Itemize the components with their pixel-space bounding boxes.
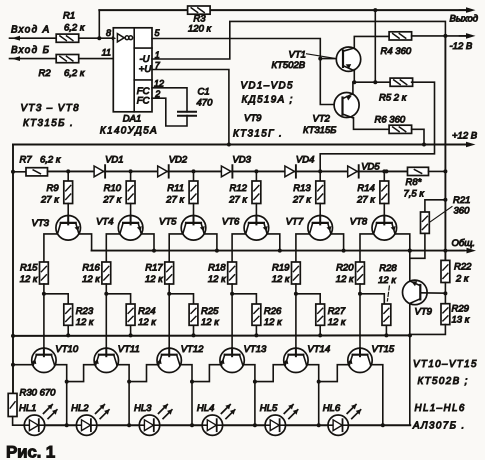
wire R18 down (231, 284, 233, 335)
wire link to R28 (360, 294, 384, 304)
transistor VT11 КТ502В (94, 348, 119, 372)
wire VT3 emitter to common rail (79, 234, 92, 251)
wire base rail to VT11 (105, 335, 107, 349)
wire pin7 to +12V rail (152, 70, 229, 145)
svg-text:R7: R7 (20, 154, 33, 165)
wire base rail to VT12 (168, 335, 170, 349)
node VT7 emitter junction (342, 249, 346, 253)
node VT13 emitter junction (190, 380, 194, 384)
label К140УД5А (100, 126, 158, 137)
node VT15 emitter junction (317, 380, 321, 384)
transistor VT3 КТ315Б (56, 216, 81, 241)
node VT10 emitter left rail (11, 363, 15, 367)
node VD rail tap R14 (382, 169, 386, 173)
svg-text:VT2: VT2 (313, 114, 331, 125)
resistor R9 27к (40, 181, 73, 205)
svg-text:DA1: DA1 (123, 114, 141, 125)
node base rail left (11, 334, 15, 338)
svg-text:2: 2 (154, 89, 160, 99)
resistor R30 670 (8, 388, 56, 417)
label HL1 (19, 403, 36, 414)
resistor R17 12к (145, 262, 174, 285)
svg-text:HL4: HL4 (197, 403, 214, 414)
wire VT15 emitter jog (319, 365, 350, 382)
node pin8 feedback junction (97, 36, 101, 40)
svg-text:VT3 – VT8: VT3 – VT8 (21, 103, 80, 114)
label КТ315Б group (23, 118, 74, 129)
wire VT12 collector down (180, 365, 192, 426)
resistor R25 12к (189, 304, 219, 328)
svg-text:27 к: 27 к (356, 194, 375, 205)
wire VT6 collector to R18 (232, 234, 246, 262)
wire link to R27 (296, 294, 320, 304)
wire R1 to DA1 pin8 (79, 37, 114, 39)
svg-text:R22: R22 (454, 261, 472, 272)
node VD rail tap R9 (66, 169, 70, 173)
wire output rail to Выход (99, 9, 466, 11)
node R22 R29 VT9 junction (443, 291, 447, 295)
label VT1 (289, 50, 335, 61)
node R24 rail junction (129, 333, 133, 337)
LED HL6 АЛ307Б (328, 404, 361, 435)
svg-text:R12: R12 (229, 183, 247, 194)
wire VT1 emitter down to node (353, 70, 355, 83)
wire R11 to VT5 base (193, 204, 195, 216)
wire R21 connect (425, 200, 446, 212)
svg-text:КТ502В: КТ502В (272, 60, 306, 71)
resistor R19 12к (272, 262, 301, 285)
wire feedback riser (98, 10, 100, 38)
wire VT8 emitter to common rail (395, 234, 410, 251)
svg-text:R30 670: R30 670 (20, 388, 57, 399)
svg-text:VT9: VT9 (244, 113, 262, 124)
wire pin12 to C1 (152, 88, 187, 112)
wire R13 to VT7 base (319, 204, 321, 216)
wire R16 down (105, 284, 107, 335)
node R25 rail junction (192, 333, 196, 337)
wire VT3 collector to R15 (44, 234, 58, 262)
transistor VT7 КТ315Б (308, 216, 333, 241)
svg-text:R8*: R8* (406, 177, 422, 188)
wire VT5 collector to R17 (169, 234, 183, 262)
svg-text:7,5 к: 7,5 к (404, 189, 425, 200)
LED HL5 АЛ307Б (265, 404, 298, 435)
svg-text:12 к: 12 к (208, 274, 226, 285)
node VT5 emitter junction (215, 249, 219, 253)
wire pin2 to C1 (152, 98, 187, 126)
label VT10 (55, 344, 78, 355)
label DA1 (123, 114, 141, 125)
wire R19 down (295, 284, 297, 335)
transistor VT12 КТ502В (157, 348, 182, 372)
svg-text:R19: R19 (272, 262, 290, 273)
svg-text:Общ.: Общ. (452, 238, 475, 249)
wire output node riser (374, 10, 376, 82)
svg-text:VD5: VD5 (361, 161, 380, 172)
svg-text:12 к: 12 к (201, 317, 219, 328)
label VT6 (222, 216, 240, 227)
transistor VT10 КТ502В (31, 348, 56, 372)
label VT9 type (244, 113, 262, 124)
svg-text:R18: R18 (208, 262, 226, 273)
svg-text:12 к: 12 к (264, 317, 282, 328)
wire VT14 collector down (307, 365, 319, 426)
wire VT13 emitter jog (192, 365, 221, 382)
resistor R11 27к (165, 181, 198, 205)
node LED junction 2 (127, 423, 131, 427)
svg-text:R20: R20 (336, 262, 354, 273)
svg-text:VT3: VT3 (32, 218, 50, 229)
node pin7 rail junction (227, 143, 231, 147)
node R8 left junction (384, 169, 388, 173)
transistor VT8 КТ315Б (372, 216, 397, 241)
resistor R15 12к (20, 262, 49, 285)
node R17 bottom (167, 292, 171, 296)
transistor VT2 КТ315Б (334, 93, 359, 118)
node R7 tap (11, 170, 15, 174)
wire diode reference rail (48, 170, 408, 172)
wire R29 to base rail (410, 325, 445, 335)
wire VT4 collector to R16 (106, 234, 120, 262)
wire LED line (24, 424, 410, 426)
svg-text:Рис. 1: Рис. 1 (6, 443, 55, 460)
terminal +12 В (452, 130, 478, 147)
diode VD2 КД519А (158, 154, 188, 177)
input terminal Вход Б (10, 45, 57, 61)
svg-text:Вход Б: Вход Б (11, 45, 50, 56)
svg-text:HL1: HL1 (19, 403, 36, 414)
node Общ R22 junction (443, 249, 447, 253)
svg-text:КД519А ;: КД519А ; (242, 95, 294, 106)
resistor R8* 7,5к (404, 167, 446, 199)
transistor VT14 КТ502В (283, 348, 308, 372)
label VT3 (32, 218, 50, 229)
node R18 bottom (230, 292, 234, 296)
wire R14 to VT8 base (383, 204, 385, 216)
node VD rail tap R10 (129, 169, 133, 173)
wire R5 to bias line (320, 82, 434, 171)
resistor R3 120к (188, 6, 212, 34)
svg-text:VT10–VT15: VT10–VT15 (413, 359, 478, 370)
svg-text:12 к: 12 к (20, 274, 38, 285)
wire common rail Общ (92, 250, 464, 252)
node VT14 emitter junction (253, 380, 257, 384)
svg-text:27 к: 27 к (40, 194, 59, 205)
label HL3 (134, 403, 152, 414)
svg-text:12: 12 (154, 78, 164, 88)
label VT11 (118, 344, 140, 355)
resistor R21 360 (421, 195, 471, 233)
svg-text:12 к: 12 к (272, 274, 290, 285)
svg-text:VT4: VT4 (96, 216, 113, 227)
svg-text:R5 2 к: R5 2 к (379, 93, 407, 104)
svg-text:КТ502В ;: КТ502В ; (418, 376, 469, 387)
label VT4 (96, 216, 113, 227)
svg-text:VD1–VD5: VD1–VD5 (241, 81, 294, 92)
svg-text:+12 В: +12 В (452, 130, 478, 141)
node R6 +12V junction (422, 143, 426, 147)
node R20 bottom (358, 292, 362, 296)
label VD1-VD5 (241, 81, 294, 92)
wire base rail to VT13 (231, 335, 233, 349)
wire R4 to -12V (412, 35, 466, 37)
wire rail to R12 (255, 171, 257, 181)
wire R30 to LED line (13, 417, 25, 426)
svg-text:12 к: 12 к (336, 274, 354, 285)
wire left rail to R30 (12, 392, 14, 394)
wire rail to R14 (383, 171, 385, 181)
LED HL2 АЛ307Б (76, 404, 109, 435)
label VT8 (350, 216, 368, 227)
label HL2 (71, 403, 89, 414)
node LED junction 1 (65, 423, 69, 427)
svg-text:470: 470 (197, 98, 214, 109)
resistor R18 12к (208, 262, 237, 285)
label КТ502В group (418, 376, 469, 387)
label КД519А (242, 95, 294, 106)
svg-text:VD1: VD1 (105, 154, 123, 165)
node R21 tap (443, 198, 447, 202)
wire R17 down (168, 284, 170, 335)
svg-text:VT11: VT11 (118, 344, 140, 355)
svg-text:R11: R11 (167, 183, 184, 194)
transistor VT4 КТ315Б (118, 216, 143, 241)
svg-text:VT8: VT8 (350, 216, 368, 227)
label VT2 (313, 114, 331, 125)
wire R25 to base rail (193, 325, 195, 335)
svg-text:8: 8 (106, 28, 111, 38)
wire +12V rail (13, 144, 466, 146)
diode VD1 КД519А (94, 154, 123, 177)
svg-text:6,2 к: 6,2 к (64, 23, 85, 34)
svg-text:VT14: VT14 (307, 344, 330, 355)
node VT11 emitter junction (65, 380, 69, 384)
svg-text:R15: R15 (20, 262, 38, 273)
LED HL3 АЛ307Б (139, 404, 172, 435)
svg-text:VT15: VT15 (372, 344, 395, 355)
resistor R24 12к (126, 304, 156, 328)
pin 2 label (154, 89, 160, 99)
svg-text:12 к: 12 к (378, 275, 396, 286)
wire output node to R5 (354, 81, 391, 83)
wire pin1 to -12V (152, 21, 445, 59)
svg-text:VT13: VT13 (244, 344, 267, 355)
resistor R7 6,2к (13, 154, 61, 176)
wire VT11 emitter jog (67, 365, 96, 382)
svg-text:VT5: VT5 (159, 216, 177, 227)
resistor R10 27к (102, 181, 135, 205)
transistor VT15 КТ502В (348, 348, 373, 372)
wire link to R23 (44, 294, 68, 304)
wire VT12 emitter jog (129, 365, 158, 382)
svg-text:АЛ307Б .: АЛ307Б . (412, 420, 466, 431)
svg-text:КТ315Г .: КТ315Г . (233, 128, 283, 139)
diode VD4 КД519А (285, 154, 314, 177)
wire R26 to base rail (255, 325, 257, 335)
label КТ502В (272, 60, 306, 71)
pin 5 label (155, 28, 161, 38)
label VT7 (286, 216, 304, 227)
svg-text:12 к: 12 к (145, 274, 163, 285)
wire base rail to VT10 (43, 335, 45, 349)
wire R2 to DA1 pin11 (79, 58, 114, 60)
wire R23 to base rail (67, 325, 69, 335)
svg-text:HL1–HL6: HL1–HL6 (415, 403, 466, 414)
label VT3-VT8 (21, 103, 80, 114)
transistor VT1 КТ502В (336, 47, 360, 71)
node riser top (373, 8, 377, 12)
wire link to R24 (106, 294, 130, 304)
svg-text:13 к: 13 к (452, 314, 470, 325)
label КТ315Г (233, 128, 283, 139)
label VT13 (244, 344, 267, 355)
svg-text:C1: C1 (198, 87, 210, 98)
label HL1-HL6 (415, 403, 466, 414)
svg-text:6,2 к: 6,2 к (64, 68, 85, 79)
node LED junction 5 (317, 423, 321, 427)
wire R22 R29 gap (444, 283, 446, 304)
resistor R16 12к (82, 262, 111, 285)
wire R27 to base rail (319, 325, 321, 335)
svg-text:HL6: HL6 (323, 403, 341, 414)
svg-text:FC: FC (137, 95, 150, 106)
wire R28 to base rail (385, 325, 387, 335)
wire VT7 emitter to common rail (331, 234, 344, 251)
transistor VT6 КТ315Б (244, 216, 269, 241)
node VT4 emitter junction (152, 249, 156, 253)
resistor R20 12к (336, 262, 365, 285)
node VT12 emitter junction (127, 380, 131, 384)
node VD rail tap R12 (254, 169, 258, 173)
transistor VT13 КТ502В (220, 348, 245, 372)
op-amp DA1 К140УД5А body (112, 28, 152, 112)
node riser bottom (373, 80, 377, 84)
wire tap to VT1 base (320, 58, 343, 60)
wire VT11 collector down (117, 365, 129, 426)
wire pin5 to VT1/VT2 bases (152, 39, 343, 105)
svg-text:R17: R17 (145, 262, 163, 273)
svg-text:12 к: 12 к (138, 317, 156, 328)
terminal Общ. (452, 238, 477, 253)
svg-text:HL2: HL2 (71, 403, 89, 414)
svg-text:R16: R16 (82, 262, 100, 273)
wire R9 to VT3 base (67, 204, 69, 216)
pin 7 label (155, 61, 161, 71)
input terminal Вход А (10, 25, 57, 41)
node VT8 emitter junction (408, 249, 412, 253)
svg-text:Вход А: Вход А (11, 25, 51, 36)
svg-text:+U: +U (139, 64, 152, 75)
svg-text:6,2 к: 6,2 к (40, 154, 61, 165)
wire right rail -12V down (444, 36, 446, 261)
wire VT5 emitter to common rail (204, 234, 217, 251)
wire VT13 collector down (243, 365, 255, 426)
label HL5 (260, 403, 278, 414)
wire VT7 collector to R19 (296, 234, 310, 262)
diode VD5 КД519А (348, 161, 381, 177)
label HL6 (323, 403, 341, 414)
svg-text:12 к: 12 к (82, 274, 100, 285)
svg-text:R9: R9 (47, 183, 60, 194)
svg-text:VT12: VT12 (181, 344, 204, 355)
node LED junction 3 (190, 423, 194, 427)
label АЛ307Б (412, 420, 466, 431)
resistor R12 27к (228, 181, 261, 205)
wire VT6 emitter to common rail (267, 234, 280, 251)
svg-text:12 к: 12 к (76, 317, 94, 328)
wire R24 to base rail (130, 325, 132, 335)
svg-text:VT7: VT7 (286, 216, 304, 227)
wire R15 down (43, 284, 45, 335)
label VT12 (181, 344, 204, 355)
svg-text:R23: R23 (76, 306, 94, 317)
transistor VT9 КТ315Г (403, 280, 428, 305)
label VT14 (307, 344, 330, 355)
pin 12 label (154, 78, 164, 88)
node VT1-VT2 output (352, 80, 356, 84)
resistor R27 12к (316, 304, 346, 328)
svg-text:27 к: 27 к (292, 194, 311, 205)
svg-text:VT10: VT10 (55, 344, 78, 355)
svg-text:VD4: VD4 (296, 154, 314, 165)
pin 1 label (155, 50, 160, 60)
svg-text:120 к: 120 к (188, 23, 211, 34)
wire VT10 collector down (55, 365, 67, 426)
svg-text:R27: R27 (328, 306, 346, 317)
resistor R5 2к (379, 78, 413, 104)
resistor R23 12к (64, 304, 94, 328)
svg-text:R14: R14 (357, 183, 374, 194)
label VT5 (159, 216, 177, 227)
label VT15 (372, 344, 395, 355)
svg-text:27 к: 27 к (102, 194, 121, 205)
svg-text:HL3: HL3 (134, 403, 152, 414)
resistor R28 12к (378, 263, 397, 325)
resistor R13 27к (292, 181, 325, 205)
wire R20 down (359, 284, 361, 335)
wire VT8 collector to R20 (360, 234, 374, 262)
wire R21 to VT9 emitter node (410, 233, 425, 258)
wire VT9 base to R22 (420, 292, 445, 294)
svg-text:11: 11 (102, 48, 111, 58)
node R19 bottom (294, 292, 298, 296)
resistor R6 360 (375, 115, 412, 134)
wire VT15 collector down (371, 365, 383, 426)
svg-text:-12 В: -12 В (450, 41, 473, 52)
wire VT2 emitter up to node (353, 82, 354, 94)
svg-text:R4 360: R4 360 (381, 46, 412, 57)
transistor VT5 КТ315Б (181, 216, 206, 241)
node R23 rail junction (66, 333, 70, 337)
svg-text:VD3: VD3 (232, 154, 251, 165)
svg-text:12 к: 12 к (328, 317, 346, 328)
svg-text:R10: R10 (104, 183, 122, 194)
svg-text:2 к: 2 к (455, 273, 469, 284)
wire R12 to VT6 base (255, 204, 257, 216)
wire R10 to VT4 base (130, 204, 132, 216)
label КТ315Б (303, 125, 336, 136)
svg-text:КТ315Б .: КТ315Б . (23, 118, 74, 129)
wire rail to R11 (193, 171, 195, 181)
output terminal Выход (450, 7, 479, 24)
resistor R22 2к (441, 260, 472, 284)
svg-text:VD2: VD2 (169, 154, 188, 165)
wire R6 to +12V rail (412, 129, 424, 144)
capacitor C1 470 (178, 87, 213, 116)
svg-text:R21: R21 (453, 195, 470, 206)
node R28 rail junction (384, 333, 388, 337)
caption Рис. 1 (6, 443, 55, 460)
